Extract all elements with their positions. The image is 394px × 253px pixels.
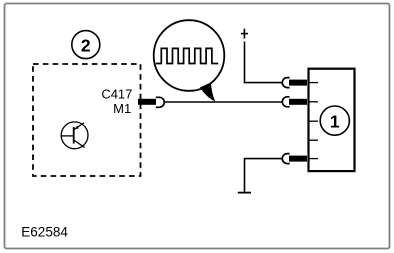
connector socket+pin at component pin 5 (282, 154, 307, 164)
wire: component 1 pin 5 to ground (245, 159, 283, 192)
ground symbol (238, 192, 251, 194)
pin 5 tick (308, 158, 319, 160)
pin 3 tick (308, 120, 319, 122)
transistor Q1 (PNP symbol) (61, 122, 88, 149)
wire: signal from C417 to component 1 pin 2 (164, 101, 282, 103)
connector C417 plug (male pin + socket) (138, 97, 164, 107)
balloon: square wave signal callout (154, 20, 225, 101)
label 2 circled callout (72, 31, 100, 59)
pin 4 tick (308, 139, 319, 141)
svg-text:C417: C417 (101, 87, 132, 102)
pin 1 tick (308, 82, 319, 84)
label 1 circled callout (320, 106, 349, 135)
svg-text:M1: M1 (113, 101, 131, 116)
wire: supply + to component 1 pin 1 (245, 42, 283, 83)
svg-text:E62584: E62584 (21, 224, 68, 239)
connector socket+pin at component pin 1 (282, 78, 307, 88)
svg-text:1: 1 (330, 111, 340, 131)
svg-text:2: 2 (81, 36, 91, 56)
module 2 dashed box (33, 64, 141, 176)
pin 2 tick (308, 101, 319, 103)
battery plus symbol (241, 29, 248, 39)
connector socket+pin at component pin 2 (282, 97, 307, 107)
component 1 body (308, 69, 355, 171)
